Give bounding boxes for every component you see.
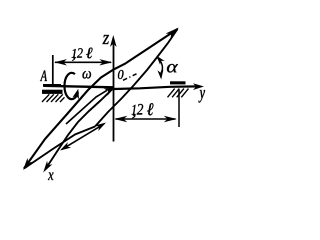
top dimension line (54, 59, 112, 65)
x axis (43, 88, 113, 173)
plate edge S4 (95, 29, 178, 127)
label alpha (167, 64, 178, 73)
label z (103, 35, 110, 44)
plate long edge S1 (23, 28, 179, 171)
bottom dimension line (114, 116, 177, 122)
support A bar 1 (43, 84, 61, 87)
plate edge S2 (24, 127, 95, 169)
label y (199, 90, 206, 103)
double-headed arrow inside plate (60, 123, 106, 151)
z axis (110, 35, 117, 142)
rotation axis segment A-O (44, 86, 114, 88)
label 0 (118, 70, 124, 79)
label dim-top (72, 48, 93, 61)
dimension extension line at support B (178, 90, 180, 128)
support A pillar / dimension extension (52, 55, 54, 84)
label omega (83, 71, 92, 79)
support A hatching (42, 94, 65, 102)
y axis (114, 83, 204, 90)
omega rotation arc (64, 73, 79, 99)
dash-dot centerline extension (123, 74, 137, 81)
support B bar (170, 81, 186, 84)
support A bar 2 (42, 90, 63, 94)
plate centerline arrow into origin O (66, 88, 115, 124)
support B hatching (168, 89, 189, 98)
label A (40, 71, 47, 82)
label x (48, 173, 54, 181)
label dim-bot (132, 103, 154, 118)
angle alpha arc (156, 56, 164, 80)
